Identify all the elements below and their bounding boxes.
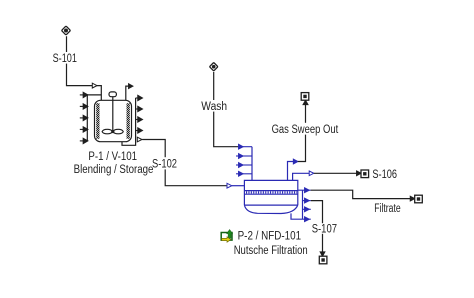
svg-text:S-106: S-106 — [372, 169, 397, 181]
label Gas Sweep Out — [270, 123, 341, 136]
label S-106 — [372, 169, 397, 181]
svg-text:Wash: Wash — [201, 101, 227, 113]
label S-102 — [150, 157, 179, 170]
S-102 inlet arrow (open blue) — [227, 183, 232, 188]
label S-101 — [51, 52, 80, 65]
label Nutsche Filtration — [234, 245, 308, 257]
wire S-106 — [314, 172, 357, 174]
svg-text:Nutsche Filtration: Nutsche Filtration — [234, 245, 308, 257]
P-2 bottom outlet pipe — [291, 213, 303, 219]
label Blending / Storage — [74, 164, 154, 176]
svg-text:P-2 / NFD-101: P-2 / NFD-101 — [238, 231, 302, 243]
svg-text:S-102: S-102 — [152, 158, 177, 170]
icon P-2 procedure (green/yellow) — [221, 229, 233, 242]
hatch band left — [96, 103, 99, 139]
wire S-102 — [142, 140, 226, 186]
filter P-2 body — [244, 180, 297, 213]
P-2 S-106 outlet riser — [293, 173, 310, 180]
svg-text:Filtrate: Filtrate — [374, 203, 400, 215]
P-1 bottom outlet pipe — [122, 140, 136, 146]
P-1 left inlet bracket — [87, 95, 101, 141]
node Gas Sweep Out destination icon — [301, 93, 309, 101]
impeller — [102, 129, 113, 134]
label P-2 / NFD-101 — [238, 231, 302, 243]
svg-text:S-107: S-107 — [312, 223, 337, 235]
node S-107 destination icon — [319, 256, 327, 264]
node Wash source icon — [209, 62, 217, 70]
P-2 left inlet bracket — [251, 147, 253, 181]
P-1 top outlet port — [126, 86, 129, 100]
svg-text:P-1 / V-101: P-1 / V-101 — [88, 151, 137, 163]
vessel P-1 body — [95, 92, 132, 142]
P-1 bottom outlet port arrow (open) — [137, 137, 142, 142]
hatch band right — [127, 103, 130, 139]
P-2 gas outlet riser — [288, 162, 294, 181]
svg-text:Blending / Storage: Blending / Storage — [74, 164, 154, 176]
wire S-101 to P-1 — [67, 36, 102, 100]
node S-106 destination icon — [361, 170, 369, 178]
label P-1 / V-101 — [88, 151, 137, 163]
label S-107 — [310, 223, 339, 235]
node Filtrate destination icon — [415, 195, 423, 203]
wire Filtrate — [311, 190, 411, 198]
wire Gas Sweep Out — [298, 105, 306, 162]
agitator shaft — [112, 97, 114, 132]
P-1 right port arrows — [136, 95, 143, 133]
wire Wash to P-2 inlet — [214, 72, 239, 147]
label Filtrate — [374, 203, 400, 215]
P-1 left port arrows — [80, 92, 88, 143]
P-2 right outlet bracket — [298, 190, 303, 219]
P-1 right outlet bracket — [135, 98, 137, 140]
P-2 right port arrows — [303, 188, 311, 222]
label Wash — [200, 100, 230, 113]
svg-text:Gas Sweep Out: Gas Sweep Out — [272, 124, 339, 136]
motor — [109, 92, 116, 97]
P-2 inlet port arrows — [236, 144, 252, 176]
wire S-107 — [311, 201, 323, 252]
svg-text:S-101: S-101 — [53, 53, 77, 65]
node S-101 source icon — [61, 26, 70, 35]
